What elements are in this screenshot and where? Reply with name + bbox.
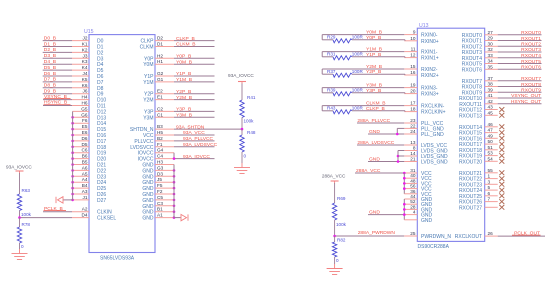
U15 pin F6 D14: [71, 118, 106, 127]
svg-text:DS90CR288A: DS90CR288A: [418, 244, 450, 250]
U15 pin K4 D5 net D5_B: [43, 65, 104, 74]
svg-text:C6: C6: [82, 148, 88, 153]
svg-text:RXOUT8: RXOUT8: [521, 82, 541, 88]
svg-text:12: 12: [410, 53, 416, 58]
resistor R37 100R: [327, 69, 363, 77]
svg-text:RXOUT9: RXOUT9: [521, 88, 541, 94]
svg-text:CLKM_B: CLKM_B: [176, 42, 196, 48]
power symbol 288A_VCC: [322, 173, 346, 183]
svg-text:R48: R48: [247, 130, 256, 135]
net label Y1M_B: [366, 46, 382, 52]
svg-text:H5: H5: [157, 130, 163, 135]
svg-text:D6: D6: [82, 136, 88, 141]
U13 pin 51 RXOUT18 no-connect: [459, 145, 504, 154]
U13 pin 9 RXIN0-: [413, 30, 438, 39]
ground symbol (left divider): [12, 249, 28, 260]
svg-text:A5: A5: [82, 171, 88, 176]
net label Y1P_B: [366, 52, 381, 58]
svg-text:39: 39: [488, 87, 494, 92]
svg-text:GND: GND: [142, 216, 154, 222]
svg-text:R41: R41: [247, 95, 256, 100]
U15 pin H6 D11 off-page connector HSYNC_B: [43, 100, 106, 110]
U15 pin K2 D2 net D2_B: [43, 47, 104, 56]
wire differential pair CLKM_B/CLKP_B termination loop: [322, 106, 417, 112]
resistor R43 100R: [327, 106, 363, 114]
svg-text:K6: K6: [82, 83, 88, 88]
svg-text:17: 17: [410, 101, 416, 106]
svg-text:D1_B: D1_B: [44, 41, 56, 47]
svg-text:4: 4: [413, 210, 416, 215]
U13 pin 44 GND: [404, 194, 432, 220]
U13 pin 36 VCC: [404, 189, 432, 198]
svg-text:D5_B: D5_B: [44, 65, 56, 71]
svg-text:41: 41: [488, 93, 494, 98]
svg-text:CLKSEL: CLKSEL: [97, 216, 116, 222]
wire R41 to junction: [241, 118, 243, 130]
U13 pin 54 RXOUT20 no-connect: [459, 156, 504, 165]
svg-text:9: 9: [413, 30, 416, 35]
U15 pin F5 GND: [142, 183, 175, 192]
net label Y3P_B: [366, 88, 381, 94]
svg-text:20: 20: [410, 89, 416, 94]
wire 288A_VCC to R69: [334, 183, 336, 203]
U15 pin D1 CLKM net CLKM_B: [140, 42, 215, 51]
wire R63 to junction: [19, 211, 21, 218]
svg-text:PCLK_B: PCLK_B: [44, 206, 63, 212]
svg-text:C2: C2: [157, 106, 163, 111]
svg-text:CLKP_B: CLKP_B: [366, 106, 385, 112]
svg-text:18: 18: [410, 107, 416, 112]
svg-text:Y3M_B: Y3M_B: [366, 82, 382, 88]
svg-text:G2: G2: [157, 71, 164, 76]
net label Y0P_B: [366, 35, 381, 41]
svg-text:CLKP_B: CLKP_B: [176, 36, 195, 42]
resistor R78: [17, 218, 30, 249]
svg-text:100k: 100k: [244, 119, 255, 124]
svg-text:14: 14: [410, 151, 416, 156]
svg-text:U13: U13: [419, 23, 429, 29]
U15 pin C2 Y3P net Y3P_B: [144, 106, 214, 115]
svg-text:D27: D27: [97, 198, 106, 204]
svg-text:27: 27: [488, 30, 494, 35]
svg-text:47: 47: [488, 128, 494, 133]
svg-text:R69: R69: [337, 196, 346, 201]
svg-text:D0_B: D0_B: [44, 35, 56, 41]
svg-text:J2: J2: [83, 36, 88, 41]
svg-text:21: 21: [410, 157, 416, 162]
svg-text:19: 19: [410, 83, 416, 88]
svg-text:15: 15: [410, 64, 416, 69]
svg-text:Y1P_B: Y1P_B: [176, 71, 191, 77]
node 288A_PWRDWN junction: [333, 235, 336, 238]
U13 pin 3 RXOUT23 no-connect: [459, 179, 504, 188]
svg-text:93A_LVDSVCC: 93A_LVDSVCC: [183, 142, 218, 148]
U13 pin 53 RXOUT19 no-connect: [459, 151, 504, 160]
U13 pin 8 LVDS_GND: [398, 146, 448, 162]
U13 pin 11 RXIN1-: [411, 47, 438, 56]
svg-text:0: 0: [21, 244, 24, 249]
U15 pin E5 D15: [71, 124, 106, 133]
U13 pin 45 RXOUT13 no-connect: [459, 110, 504, 119]
svg-text:GND: GND: [369, 129, 380, 135]
svg-text:13: 13: [410, 140, 416, 145]
svg-text:A6: A6: [82, 165, 88, 170]
svg-text:R37: R37: [327, 69, 336, 74]
U15 pin E1 Y2M net Y2M_B: [143, 95, 214, 104]
U13 pin 46 RXOUT14 no-connect: [459, 122, 504, 131]
svg-text:J3: J3: [83, 53, 88, 58]
svg-text:D5: D5: [82, 142, 88, 147]
svg-text:B1: B1: [157, 207, 163, 212]
svg-text:Y3M_B: Y3M_B: [176, 113, 192, 119]
svg-text:J4: J4: [83, 71, 88, 76]
U15 pin J5 GND: [142, 177, 175, 186]
U15 pin J6 D9 net D9_B: [43, 89, 104, 98]
U15 pin F2 GND: [142, 189, 175, 198]
svg-text:100R: 100R: [352, 35, 364, 40]
U15 pin D6 D17: [71, 136, 106, 145]
U15 pin A5 D23: [71, 171, 106, 180]
svg-text:F2: F2: [157, 189, 163, 194]
U15 pin G3 GND: [142, 165, 175, 174]
U13 pin 43 RXOUT12 no-connect: [459, 105, 504, 114]
U13 pin 25 PWRDWN_N net 288A_PWRDWN: [335, 230, 452, 240]
svg-text:34: 34: [488, 59, 494, 64]
U13 pin 10 RXIN0+: [410, 36, 438, 45]
svg-text:42: 42: [488, 99, 494, 104]
svg-text:D1: D1: [157, 42, 163, 47]
svg-text:A1: A1: [157, 213, 163, 218]
svg-text:D2: D2: [157, 36, 163, 41]
U13 pin 4 GND: [368, 209, 433, 218]
resistor R63: [17, 188, 31, 217]
svg-text:43: 43: [488, 105, 494, 110]
svg-text:GND: GND: [369, 156, 380, 162]
ground symbol (middle divider): [234, 163, 250, 174]
svg-text:Y3P_B: Y3P_B: [366, 88, 381, 94]
svg-text:11: 11: [411, 47, 416, 52]
node CLKSEL divider junction: [18, 216, 21, 219]
svg-text:10: 10: [410, 36, 416, 41]
U15 pin C6 D19: [71, 148, 106, 157]
svg-text:RXOUT2: RXOUT2: [521, 42, 541, 48]
U15 pin G2 Y1P net Y1P_B: [144, 71, 214, 80]
svg-text:RXOUT6: RXOUT6: [521, 65, 541, 71]
U15 pin E6 D16: [71, 130, 106, 139]
svg-text:24: 24: [410, 129, 416, 134]
U15 pin K5 D7 net D7_B: [43, 77, 104, 86]
svg-text:G3: G3: [157, 165, 164, 170]
net label CLKM_B: [366, 100, 386, 106]
U13 pin GND GND: [404, 218, 432, 224]
U15 pin H1 Y0M net Y0M_B: [143, 59, 214, 68]
resistor R39 100R: [327, 88, 363, 96]
svg-text:GND: GND: [421, 218, 433, 224]
U15 pin A6 D22: [71, 165, 106, 174]
svg-text:R43: R43: [327, 106, 336, 111]
U15 pin C3 GND: [142, 201, 175, 210]
U15 pin D3 GND: [142, 171, 175, 180]
svg-text:D9_B: D9_B: [44, 89, 56, 95]
U13 pin 41 RXOUT10 net VSYNC_OUT: [459, 93, 542, 102]
svg-text:RXOUT6: RXOUT6: [462, 67, 483, 73]
U15 pin K1 D1 net D1_B: [43, 41, 104, 50]
svg-text:H4: H4: [82, 95, 88, 100]
U15 pin J2 D0 net D0_B: [43, 35, 104, 44]
svg-text:45: 45: [488, 110, 494, 115]
U15 pin A4 D24: [71, 177, 106, 186]
svg-text:RXOUT13: RXOUT13: [459, 113, 482, 119]
svg-text:93A_SHTDN: 93A_SHTDN: [176, 124, 205, 130]
svg-text:E6: E6: [82, 130, 88, 135]
wire R69 to junction: [334, 220, 336, 236]
svg-text:H6: H6: [82, 101, 88, 106]
U13 pin 42 RXOUT11 net HSYNC_OUT: [459, 99, 541, 108]
U15 pin J3 D3 net D3_B: [43, 53, 104, 62]
svg-text:Y3P_B: Y3P_B: [176, 107, 191, 113]
wire differential pair Y3M_B/Y3P_B termination loop: [322, 88, 417, 94]
svg-text:3: 3: [488, 179, 491, 184]
wire U15 grounded data bus vertical: [72, 111, 74, 199]
U15 pin H4 D10 off-page connector VSYNC_B: [43, 94, 106, 104]
svg-text:HSYNC_B: HSYNC_B: [44, 100, 67, 106]
svg-text:RXIN3+: RXIN3+: [421, 92, 439, 98]
svg-text:RXOUT5: RXOUT5: [521, 59, 541, 65]
svg-text:93A_IOVCC: 93A_IOVCC: [6, 164, 32, 169]
svg-text:8: 8: [413, 146, 416, 151]
svg-text:288A_VCC: 288A_VCC: [356, 168, 381, 174]
svg-text:93A_PLLVCC: 93A_PLLVCC: [183, 136, 214, 142]
svg-text:CLKM_B: CLKM_B: [366, 100, 386, 106]
svg-text:288A_LVDSVCC: 288A_LVDSVCC: [357, 140, 394, 146]
svg-text:288A_VCC: 288A_VCC: [322, 173, 346, 178]
svg-text:RXIN1+: RXIN1+: [421, 56, 439, 62]
svg-text:Y0P_B: Y0P_B: [366, 35, 381, 41]
svg-text:35: 35: [488, 64, 494, 69]
U15 pin J4 D6 net D6_B: [43, 71, 104, 80]
svg-text:29: 29: [488, 36, 494, 41]
wire differential pair Y0M_B/Y0P_B termination loop: [322, 35, 417, 41]
svg-text:100R: 100R: [352, 69, 364, 74]
svg-text:PCLK_OUT: PCLK_OUT: [514, 231, 540, 237]
svg-text:A4: A4: [82, 177, 88, 182]
svg-text:PWRDWN_N: PWRDWN_N: [421, 234, 451, 240]
U15 pin A2 CLKIN off-page connector PCLK_B: [43, 206, 112, 216]
U15 pin A1 GND: [142, 213, 175, 222]
svg-text:46: 46: [488, 122, 494, 127]
svg-text:J1: J1: [83, 195, 88, 200]
U13 pin 15 RXIN2-: [410, 64, 437, 73]
svg-text:G6: G6: [81, 112, 88, 117]
U13 pin 48 VCC: [403, 178, 432, 187]
U15 pin B1 GND: [142, 207, 175, 216]
svg-text:100k: 100k: [336, 222, 347, 227]
svg-text:C5: C5: [157, 195, 163, 200]
svg-text:Y0P_B: Y0P_B: [176, 54, 191, 60]
U13 pin 40 VCC: [403, 173, 432, 182]
U13 pin RXOUT27 RXOUT27 no-connect: [459, 205, 504, 211]
svg-text:D8_B: D8_B: [44, 83, 56, 89]
svg-text:D2_B: D2_B: [44, 47, 56, 53]
svg-text:25: 25: [410, 231, 416, 236]
svg-text:A3: A3: [82, 189, 88, 194]
ground symbol (right divider): [327, 264, 343, 275]
ground arrow for U15 GND pins: [174, 214, 188, 220]
U13 pin 28 GND: [403, 204, 433, 213]
U13 pin 19 RXIN3-: [410, 83, 437, 92]
svg-text:16: 16: [410, 70, 416, 75]
svg-text:288A_PLLVCC: 288A_PLLVCC: [357, 118, 390, 124]
wire U15 GND bus vertical: [173, 165, 175, 218]
wire differential pair Y1M_B/Y1P_B termination loop: [322, 52, 417, 58]
svg-text:D4_B: D4_B: [44, 59, 56, 65]
svg-text:49: 49: [488, 133, 494, 138]
svg-text:J6: J6: [83, 89, 88, 94]
U15 pin C4 IOVCC net 93A_IOVCC: [138, 153, 215, 163]
wire differential pair Y2M_B/Y2P_B termination loop: [322, 69, 417, 75]
svg-text:7: 7: [488, 197, 491, 202]
svg-text:D3_B: D3_B: [44, 53, 56, 59]
svg-text:R29: R29: [327, 35, 336, 40]
U13 pin 31 VCC: [355, 168, 432, 194]
svg-text:K5: K5: [82, 77, 88, 82]
svg-text:Y2M: Y2M: [143, 98, 153, 104]
U13 pin 6 RXOUT25 no-connect: [459, 191, 504, 200]
IC U15 SN65LVDS93A body: [84, 29, 155, 261]
U13 pin 52 GND: [403, 199, 433, 208]
U13 pin 49 RXOUT16 no-connect: [459, 133, 504, 142]
U15 pin B6 D20: [71, 154, 106, 163]
svg-text:D7_B: D7_B: [44, 77, 56, 83]
U13 pin 50 RXOUT17 no-connect: [459, 139, 504, 148]
svg-text:1: 1: [488, 174, 491, 179]
svg-text:26: 26: [488, 231, 494, 236]
svg-text:RXCLKIN+: RXCLKIN+: [421, 110, 446, 116]
node 93A_SHTDN junction: [241, 128, 244, 131]
svg-text:C4: C4: [157, 154, 163, 159]
svg-text:D3: D3: [157, 171, 163, 176]
svg-text:R78: R78: [22, 222, 31, 227]
U15 pin B3 SHTDN_N net 93A_SHTDN: [130, 124, 242, 133]
svg-text:LVDS_GND: LVDS_GND: [421, 160, 448, 166]
U13 pin 12 RXIN1+: [410, 53, 438, 62]
svg-text:VSYNC_OUT: VSYNC_OUT: [511, 93, 541, 99]
wire R78 to ground: [19, 243, 21, 249]
net label Y3M_B: [366, 82, 382, 88]
svg-text:H3: H3: [157, 160, 163, 165]
svg-text:Y1M_B: Y1M_B: [366, 46, 382, 52]
svg-text:RXOUT4: RXOUT4: [521, 53, 541, 59]
U15 pin F1 LVDSVCC net 93A_LVDSVCC: [130, 142, 217, 151]
U13 pin 23 PLL_VCC net 288A_PLLVCC: [357, 118, 444, 127]
U13 pin 37 RXOUT7 net RXOUT7: [462, 76, 542, 85]
U15 pin J1 D27: [71, 195, 106, 204]
U13 pin 26 RXCLKOUT off-page connector PCLK_OUT: [455, 231, 545, 241]
power symbol 93A_IOVCC (left): [6, 164, 32, 173]
svg-text:PLL_GND: PLL_GND: [421, 132, 444, 138]
svg-text:K4: K4: [82, 65, 88, 70]
svg-text:SN65LVDS93A: SN65LVDS93A: [100, 256, 135, 262]
resistor R31 100R: [327, 52, 363, 60]
U13 pin 22 PLL_GND: [397, 123, 444, 134]
svg-text:HSYNC_OUT: HSYNC_OUT: [511, 99, 541, 105]
svg-text:R63: R63: [22, 188, 31, 193]
wire 93A_IOVCC to R63: [19, 173, 21, 194]
svg-text:H2: H2: [157, 53, 163, 58]
svg-text:K1: K1: [82, 42, 88, 47]
svg-text:G1: G1: [157, 77, 164, 82]
IC U13 DS90CR288A body: [417, 23, 484, 250]
svg-text:37: 37: [488, 76, 494, 81]
resistor R29 100R: [327, 35, 363, 43]
svg-text:Y0M: Y0M: [143, 62, 153, 68]
U13 pin 18 RXCLKIN+: [410, 107, 445, 116]
U15 pin K6 D8 net D8_B: [43, 83, 104, 92]
U13 pin 47 RXOUT15 no-connect: [459, 128, 504, 137]
svg-text:RXOUT1: RXOUT1: [521, 36, 541, 42]
net label Y2M_B: [366, 64, 382, 70]
power symbol 93A_IOVCC (middle): [228, 73, 254, 84]
svg-text:K2: K2: [82, 47, 88, 52]
svg-text:Y2M_B: Y2M_B: [366, 64, 382, 70]
svg-text:Y0M_B: Y0M_B: [176, 59, 192, 65]
U13 pin 27 RXOUT0 net RXOUT0: [462, 30, 542, 39]
U13 pin 14 LVDS_GND: [397, 151, 448, 160]
U15 pin B5 D21: [71, 160, 106, 169]
svg-text:E1: E1: [157, 95, 163, 100]
svg-text:Y2M_B: Y2M_B: [176, 95, 192, 101]
U15 pin G4 IOVCC: [138, 148, 174, 157]
U15 pin D2 CLKP net CLKP_B: [140, 36, 214, 45]
svg-text:100k: 100k: [21, 212, 32, 217]
svg-text:32: 32: [488, 47, 494, 52]
U13 pin 20 RXIN3+: [410, 89, 438, 98]
U13 pin 30 RXOUT2 net RXOUT2: [462, 41, 542, 50]
U15 pin B2 PLLVCC net 93A_PLLVCC: [134, 136, 214, 145]
net label Y2P_B: [366, 69, 381, 75]
U13 pin 56 VCC: [403, 184, 432, 193]
U13 pin 24 PLL_GND net GND: [368, 129, 444, 138]
svg-text:23: 23: [410, 118, 416, 123]
svg-text:Y3M: Y3M: [143, 115, 153, 121]
U15 pin K3 D4 net D4_B: [43, 59, 104, 68]
U15 pin C1 Y3M net Y3M_B: [143, 112, 214, 121]
svg-text:100R: 100R: [352, 106, 364, 111]
svg-text:93A_IOVCC: 93A_IOVCC: [183, 154, 210, 160]
svg-text:22: 22: [410, 123, 416, 128]
svg-text:R39: R39: [327, 88, 336, 93]
svg-text:38: 38: [488, 82, 494, 87]
svg-text:U15: U15: [84, 29, 94, 35]
svg-text:5: 5: [488, 185, 491, 190]
resistor R82: [332, 236, 345, 263]
svg-text:RXOUT27: RXOUT27: [459, 205, 482, 211]
svg-text:0: 0: [244, 154, 247, 159]
U13 pin 38 RXOUT8 net RXOUT8: [462, 82, 542, 91]
svg-text:B4: B4: [82, 183, 88, 188]
wire 93A_IOVCC to R41: [241, 84, 243, 101]
svg-text:0: 0: [336, 258, 339, 263]
U13 pin 1 RXOUT22 no-connect: [459, 174, 504, 183]
svg-text:53: 53: [488, 151, 494, 156]
svg-text:288A_PWRDWN: 288A_PWRDWN: [358, 230, 396, 236]
svg-text:R31: R31: [327, 52, 336, 57]
U15 pin E2 Y2P net Y2P_B: [144, 89, 214, 98]
U13 pin 55 RXOUT21 no-connect: [459, 168, 504, 177]
svg-text:Y2P_B: Y2P_B: [366, 69, 381, 75]
svg-text:K3: K3: [82, 59, 88, 64]
svg-text:GND: GND: [369, 209, 380, 215]
